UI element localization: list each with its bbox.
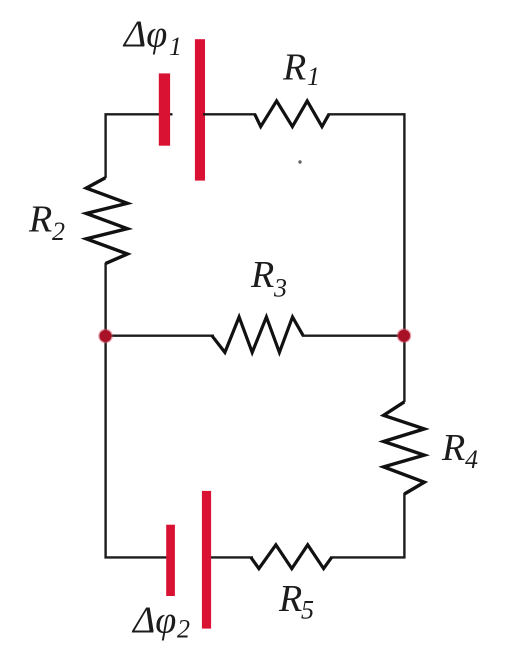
wire bottom: battery Δφ2 to resistor R5 xyxy=(208,556,253,558)
svg-text:R: R xyxy=(441,427,465,469)
battery Δφ2 long plate (positive) xyxy=(202,491,211,629)
node B junction dot (right) xyxy=(397,328,412,343)
wire top-left: left corner segment to battery plate xyxy=(106,114,173,178)
resistor R1 xyxy=(255,101,329,127)
svg-text:2: 2 xyxy=(52,217,65,246)
battery Δφ1 short plate (negative) xyxy=(159,73,170,145)
wire left side: below R2 down to bottom-left corner xyxy=(106,263,172,557)
svg-text:1: 1 xyxy=(307,62,320,91)
wire right side: below R4 to bottom-right corner xyxy=(330,493,404,557)
label R4 xyxy=(441,427,478,474)
wire top: battery Δφ1 to resistor R1 xyxy=(203,113,256,115)
label R2 xyxy=(28,199,65,246)
svg-text:2: 2 xyxy=(177,614,190,643)
svg-text:R: R xyxy=(250,254,274,296)
label Δφ1 xyxy=(122,14,182,61)
battery Δφ1 long plate (positive) xyxy=(195,39,205,180)
svg-text:1: 1 xyxy=(169,32,182,61)
resistor R3 xyxy=(212,317,303,352)
svg-text:R: R xyxy=(278,578,302,620)
battery Δφ2 short plate (negative) xyxy=(166,525,175,596)
svg-text:4: 4 xyxy=(465,445,478,474)
node A junction dot (left) xyxy=(98,329,113,344)
speck artifact near R1 xyxy=(298,160,301,163)
resistor R2 xyxy=(86,178,127,264)
svg-text:R: R xyxy=(28,199,52,241)
wire middle: resistor R3 to node B xyxy=(302,335,404,337)
svg-text:R: R xyxy=(282,47,306,89)
label Δφ2 xyxy=(131,599,190,643)
resistor R4 xyxy=(384,402,425,494)
svg-text:3: 3 xyxy=(273,274,287,303)
label R5 xyxy=(278,578,314,625)
svg-text:Δφ: Δφ xyxy=(131,599,176,641)
wire middle: node A to resistor R3 xyxy=(106,335,215,337)
svg-text:5: 5 xyxy=(301,596,314,625)
resistor R5 xyxy=(251,545,332,569)
svg-text:Δφ: Δφ xyxy=(122,14,167,56)
wire top-right: R1 to corner, down to resistor R4 xyxy=(328,114,405,402)
label R1 xyxy=(282,47,320,91)
label R3 xyxy=(250,254,287,303)
